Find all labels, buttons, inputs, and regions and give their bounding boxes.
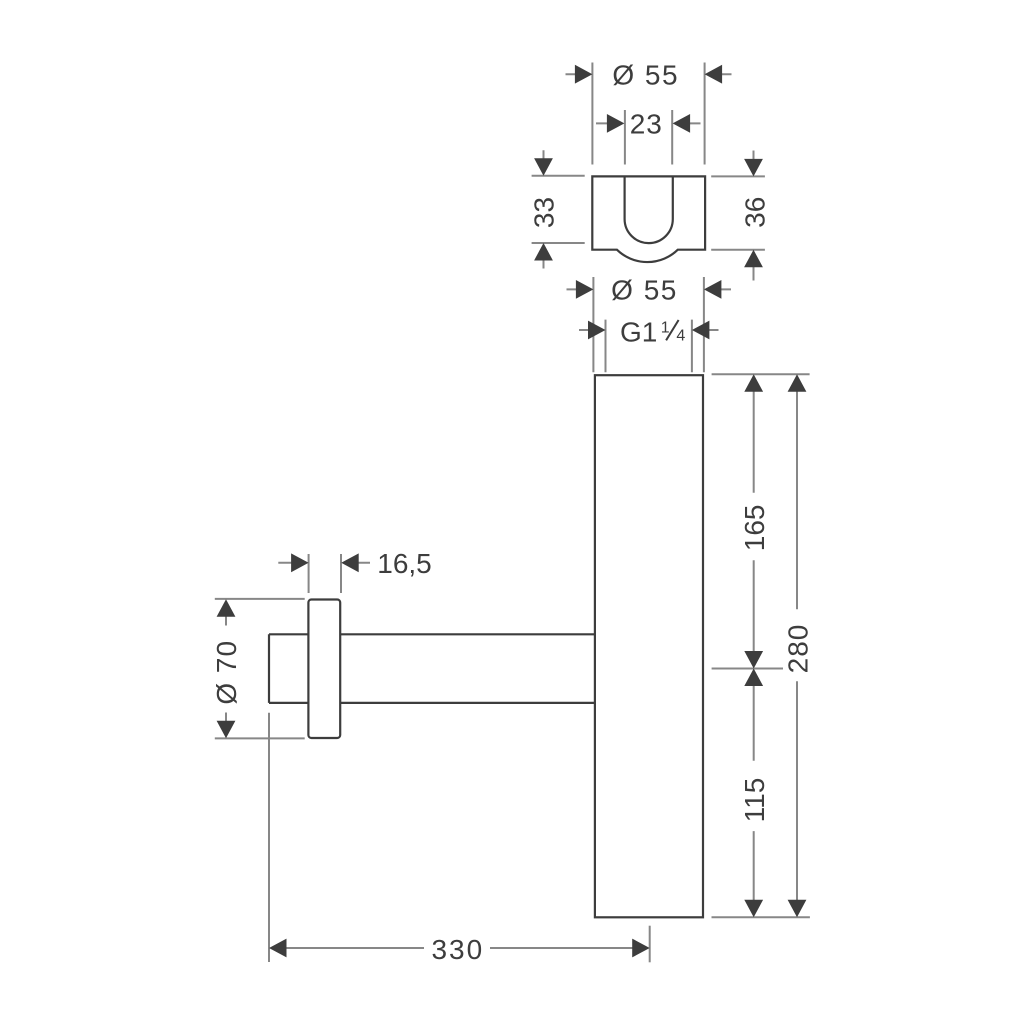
bracket U cutout bbox=[625, 176, 673, 243]
wall pipe outline bbox=[269, 634, 595, 703]
dimension 23 tails bbox=[596, 122, 701, 124]
svg-text:Ø 70: Ø 70 bbox=[211, 640, 242, 705]
dimension 23 arrows bbox=[607, 114, 690, 133]
svg-text:33: 33 bbox=[529, 197, 560, 228]
dimension 280 arrows bbox=[788, 374, 807, 917]
svg-text:165: 165 bbox=[739, 505, 770, 552]
dimension 165 arrows bbox=[744, 374, 763, 668]
extension lines top dia55 bbox=[592, 63, 704, 165]
dimension dia70 tails bbox=[225, 617, 227, 722]
dimension 33 arrows bbox=[534, 158, 553, 260]
dimension 115 line bbox=[753, 686, 755, 901]
dimension 280 line bbox=[796, 392, 798, 901]
dimension dia70 ticks bbox=[215, 599, 305, 739]
svg-text:Ø 55: Ø 55 bbox=[611, 275, 678, 306]
extension lines 16,5 bbox=[309, 554, 341, 593]
dimension dia55 top tails bbox=[566, 73, 732, 75]
dimension 16,5 arrows bbox=[291, 553, 359, 572]
dimension G1-1/4 tails bbox=[579, 329, 719, 331]
svg-text:Ø 55: Ø 55 bbox=[612, 59, 679, 90]
svg-text:1: 1 bbox=[661, 319, 670, 336]
siphon body outline bbox=[595, 375, 703, 917]
dimension G1-1/4 label bbox=[620, 317, 685, 348]
dimension 165 line bbox=[753, 392, 755, 652]
wall bracket top-view outline bbox=[592, 176, 705, 262]
dimension dia55 top arrows bbox=[575, 65, 722, 84]
svg-text:23: 23 bbox=[630, 109, 663, 140]
svg-text:280: 280 bbox=[783, 624, 814, 674]
svg-text:330: 330 bbox=[431, 934, 484, 965]
right ticks 165 280 115 bbox=[712, 374, 810, 917]
dimension 33 tails bbox=[543, 150, 545, 268]
dimension 16,5 tails bbox=[278, 562, 370, 564]
dimension dia55 lower arrows bbox=[576, 280, 722, 299]
svg-text:G1: G1 bbox=[620, 317, 657, 348]
dimension 36 ticks bbox=[711, 176, 765, 249]
extension lines G1-1/4 bbox=[606, 320, 692, 373]
escutcheon flange outline bbox=[308, 600, 340, 739]
dimension dia70 arrows bbox=[217, 599, 236, 738]
extension line 330 left bbox=[268, 713, 270, 962]
dimension 36 tails bbox=[753, 151, 755, 281]
dimension 33 ticks bbox=[532, 176, 585, 243]
svg-text:16,5: 16,5 bbox=[377, 548, 432, 579]
dimension 115 arrows bbox=[744, 669, 763, 918]
extension lines 23 bbox=[625, 110, 672, 165]
dimension 330 arrows bbox=[269, 939, 650, 958]
dimension dia55 lower tails bbox=[567, 288, 732, 290]
extension line 330 right bbox=[649, 926, 651, 963]
dimension G1-1/4 arrows bbox=[588, 321, 709, 340]
svg-text:36: 36 bbox=[740, 197, 771, 228]
extension lines dia55 lower bbox=[593, 277, 704, 372]
dimension 36 arrows bbox=[744, 159, 763, 267]
dimension 330 line bbox=[286, 947, 633, 949]
svg-text:115: 115 bbox=[739, 778, 770, 823]
svg-text:4: 4 bbox=[676, 328, 685, 345]
